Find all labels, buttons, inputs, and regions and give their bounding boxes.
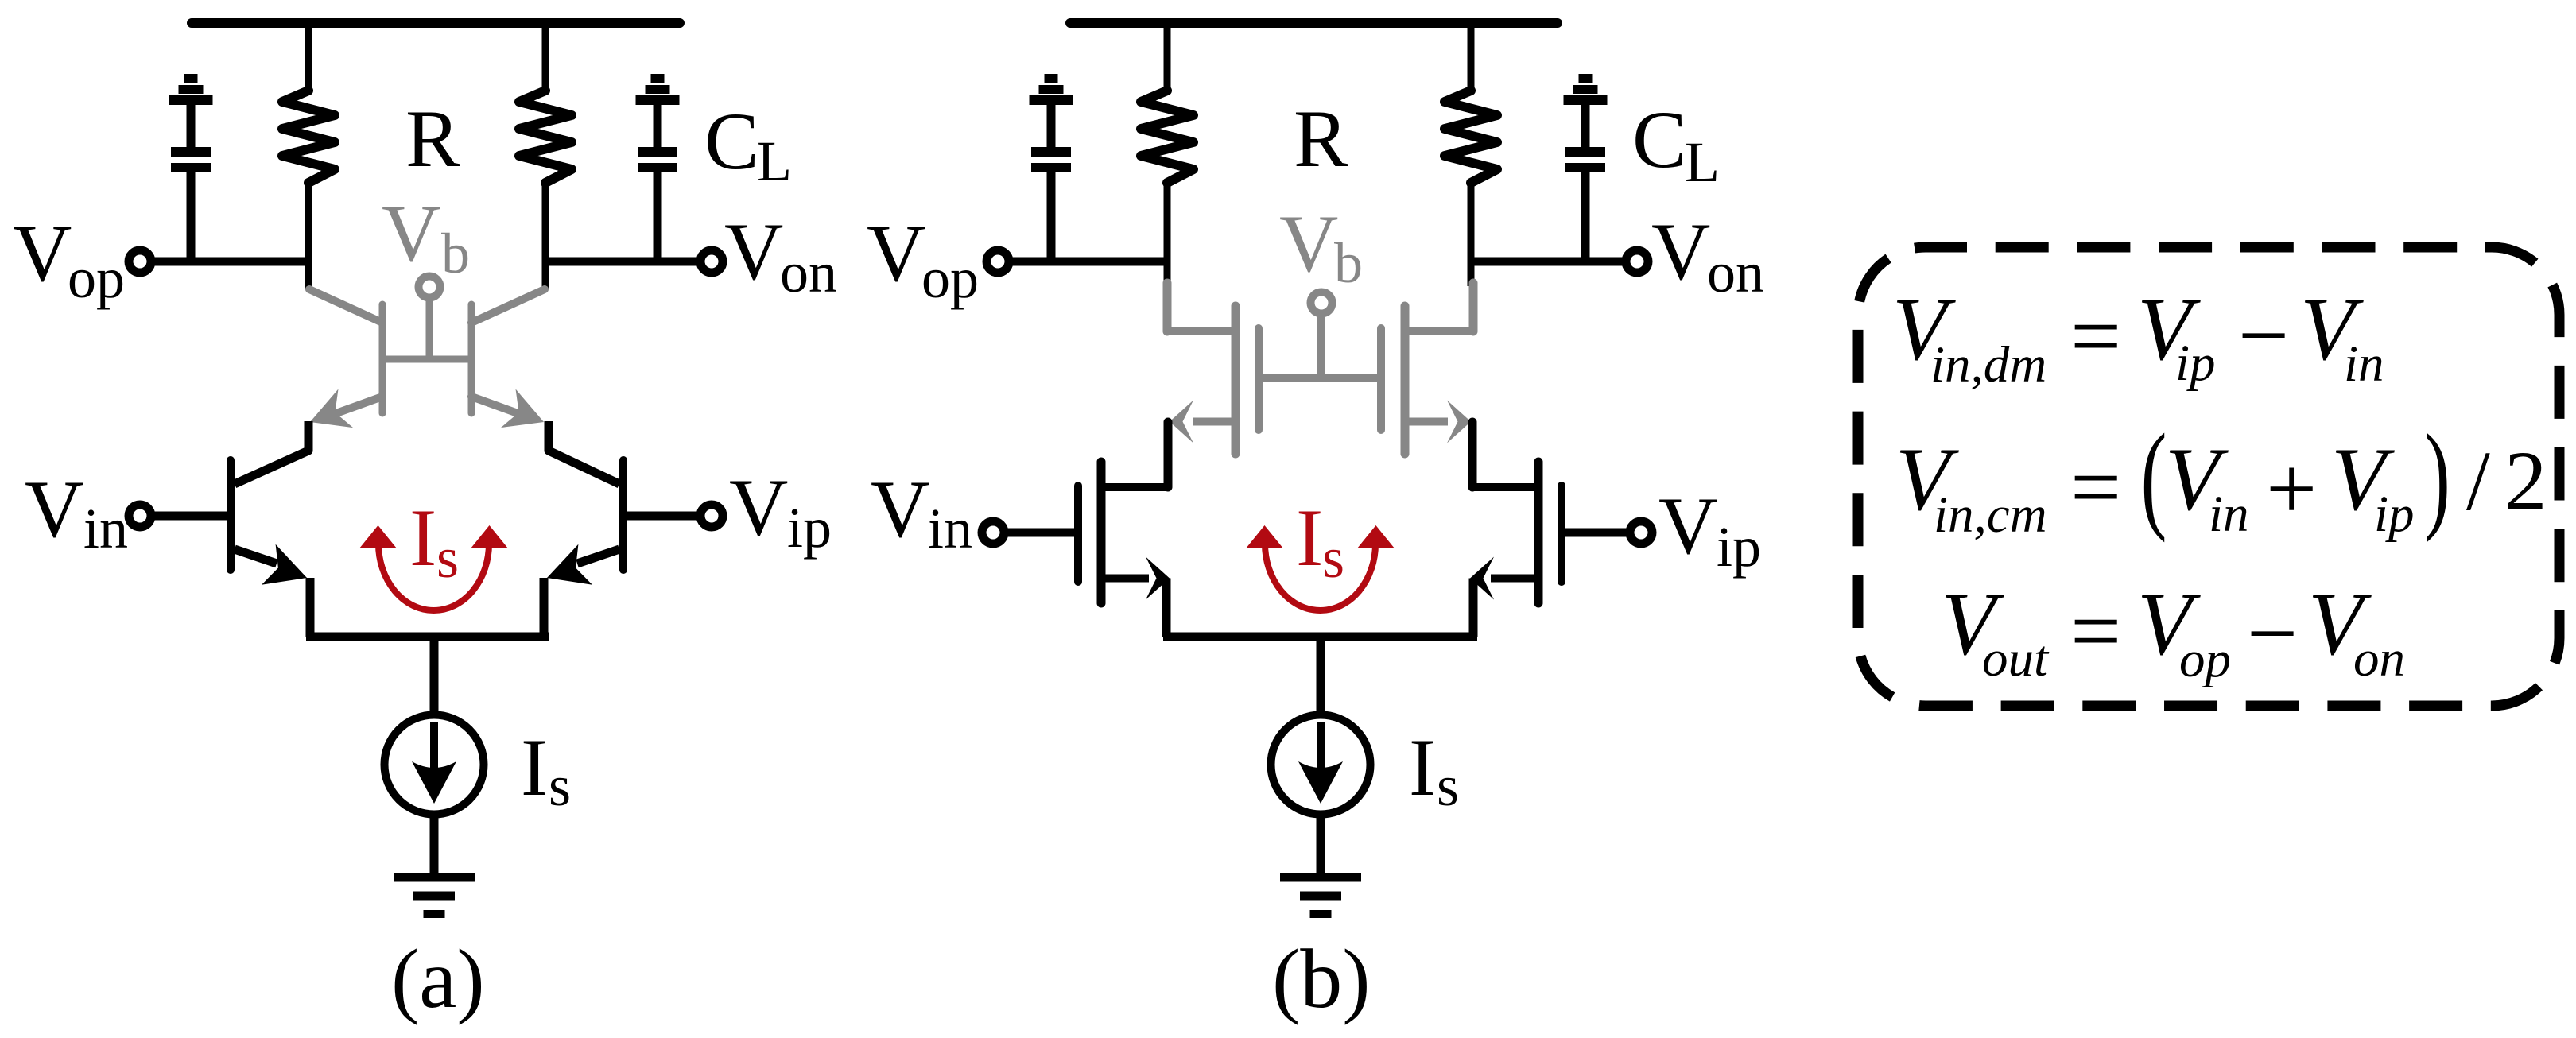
svg-text:(b): (b) [1272, 932, 1371, 1025]
svg-text:−: − [2238, 285, 2289, 385]
wire: right resistor to Von node (b) [1468, 181, 1475, 286]
input BJT Q1 left (a): emitter wire [235, 549, 277, 564]
gray cascode MOS M3 left (b): drain stub [1163, 283, 1172, 331]
svg-text:V: V [871, 464, 929, 555]
terminal node Vin (a) [129, 505, 151, 527]
svg-text:ip: ip [787, 496, 832, 560]
wire: current source to ground (b) [1317, 815, 1325, 877]
svg-text:I: I [409, 493, 436, 583]
svg-text:+: + [2266, 438, 2317, 539]
svg-text:L: L [757, 130, 792, 193]
wire: M2 drain to gray source (b) [1468, 422, 1477, 487]
input MOS M2 right (b): drain wire [1473, 483, 1538, 491]
input BJT Q1 left (a): base bar [227, 460, 235, 570]
svg-text:=: = [2070, 580, 2121, 681]
red current arrow Is (b) [1246, 525, 1395, 610]
terminal node Vop (b) [987, 250, 1009, 273]
svg-text:V: V [382, 188, 440, 279]
current source Is (a) [385, 715, 484, 815]
gray cascode MOS M3 left (b): source wire [1193, 418, 1236, 426]
gray cascode BJT Q3 left (a): collector wire [309, 289, 382, 323]
svg-text:=: = [2070, 285, 2121, 386]
wire: Von node line (a) [542, 258, 698, 266]
svg-text:ip: ip [2374, 486, 2415, 543]
svg-text:out: out [1982, 630, 2050, 687]
svg-text:(: ( [2141, 409, 2167, 543]
wire: tail to current source (a) [430, 637, 439, 715]
terminal node Vip (b) [1630, 521, 1652, 544]
svg-text:on: on [2353, 630, 2405, 687]
input MOS M2 right (b): source wire [1491, 575, 1538, 583]
gray cascode MOS M3 left (b): channel bar [1232, 306, 1240, 454]
resistor R right (a) [519, 91, 572, 183]
svg-text:s: s [1437, 754, 1459, 818]
wire: Q2 emitter to tail rail (a) [540, 578, 549, 637]
resistor R right (b) [1445, 91, 1497, 183]
gray cascode BJT Q3 left (a): base bar [379, 304, 386, 413]
current source Is (b) [1271, 715, 1371, 815]
wire: Q1 emitter to tail rail (a) [306, 578, 315, 637]
svg-text:V: V [867, 208, 925, 299]
equation 1: Vin,dm = Vip - Vin [1892, 280, 2384, 393]
svg-text:2: 2 [2504, 435, 2547, 529]
wire: tail to current source (b) [1317, 637, 1325, 715]
wire: tail rail (b) [1163, 633, 1477, 641]
input BJT Q1 left (a): collector wire [235, 421, 308, 484]
input MOS M1 left (b): source wire [1101, 575, 1149, 583]
gray wire: Vb stem (a) [426, 300, 433, 359]
svg-text:s: s [436, 526, 459, 590]
svg-text:): ) [2424, 409, 2450, 543]
input BJT Q1 left (a): emitter arrow [262, 544, 307, 585]
capacitor CL right (a) [636, 74, 680, 265]
input MOS M2 right (b): source arrow [1470, 557, 1494, 600]
gray cascode BJT Q4 right (a): collector wire [471, 289, 545, 323]
wire: M1 source to tail rail (b) [1162, 579, 1171, 637]
wire: Vin base lead (a) [154, 512, 227, 521]
resistor R left (a) [282, 91, 335, 183]
input BJT Q2 right (a): emitter arrow [547, 544, 592, 585]
input MOS M1 left (b): drain wire [1101, 483, 1167, 491]
wire: Vip base lead (a) [627, 512, 700, 521]
svg-text:op: op [68, 246, 125, 310]
svg-text:V: V [13, 208, 72, 299]
gray cascode MOS M3 left (b): gate bar [1255, 328, 1263, 430]
input BJT Q2 right (a): collector wire [549, 421, 619, 484]
input MOS M1 left (b): source arrow [1146, 557, 1170, 600]
gray cascode MOS M4 right (b): drain stub [1469, 283, 1478, 331]
wire: Von node line (b) [1468, 258, 1624, 266]
gray cascode BJT Q4 right (a): base bar [468, 304, 475, 413]
svg-text:in,dm: in,dm [1930, 336, 2046, 393]
equation 3: Vout = Vop - Von [1941, 575, 2405, 688]
svg-text:=: = [2070, 436, 2121, 537]
gray cascode MOS M4 right (b): channel bar [1401, 306, 1410, 454]
ground (a) [394, 877, 475, 914]
terminal node Vb (b) [1311, 292, 1333, 314]
input MOS M1 left (b): gate bar [1074, 486, 1082, 582]
input MOS M1 left (b): channel bar [1097, 462, 1106, 603]
svg-text:s: s [1322, 526, 1344, 590]
svg-text:V: V [729, 463, 788, 553]
svg-text:ip: ip [2175, 335, 2216, 392]
svg-text:on: on [780, 241, 837, 304]
svg-text:−: − [2247, 583, 2298, 684]
terminal node Von (a) [700, 250, 723, 273]
svg-text:b: b [441, 222, 470, 285]
wire: tail rail (a) [306, 633, 549, 641]
wire: left resistor to Vop node (a) [305, 181, 312, 289]
wire: rail to left resistor (a) [305, 23, 312, 94]
capacitor CL left (a) [169, 74, 213, 265]
wire: rail to right resistor (a) [542, 23, 549, 94]
svg-text:V: V [1658, 481, 1717, 571]
svg-text:V: V [25, 464, 83, 555]
gray cascode MOS M4 right (b): gate bar [1377, 328, 1385, 430]
svg-text:ip: ip [1717, 515, 1761, 579]
equation 2: Vin,cm = (Vin + Vip)/2 [1895, 409, 2547, 544]
input MOS M2 right (b): gate bar [1558, 486, 1565, 582]
input BJT Q2 right (a): base bar [619, 460, 627, 570]
svg-text:V: V [1651, 207, 1710, 297]
resistor R left (b) [1141, 91, 1193, 183]
wire: current source to ground (a) [430, 815, 439, 877]
svg-text:C: C [704, 96, 759, 187]
gray wire: base crossbar (a) [382, 356, 471, 363]
svg-text:on: on [1707, 241, 1764, 304]
wire: Vin gate lead (b) [1007, 529, 1075, 537]
svg-text:s: s [549, 754, 571, 818]
wire: rail to left resistor (b) [1164, 23, 1171, 94]
wire: M1 drain to gray source (b) [1164, 422, 1173, 487]
terminal node Vb (a) [419, 277, 440, 298]
terminal node Vip (a) [700, 505, 723, 527]
svg-text:V: V [1279, 199, 1338, 289]
wire: right resistor to Von node (a) [542, 181, 549, 289]
svg-text:L: L [1685, 130, 1720, 194]
svg-text:op: op [921, 246, 979, 310]
wire: Vop node line (b) [1011, 258, 1170, 266]
input BJT Q2 right (a): emitter wire [577, 549, 619, 564]
svg-text:in: in [2209, 486, 2249, 543]
dashed equation box [1858, 247, 2559, 706]
gray wire: Vb stem (b) [1317, 316, 1325, 378]
svg-text:/: / [2466, 435, 2490, 529]
svg-text:R: R [1294, 94, 1348, 184]
gray cascode BJT Q3 left (a): emitter wire [334, 397, 382, 414]
supply rail (a) [192, 18, 680, 28]
gray cascode MOS M4 right (b): source arrow [1447, 401, 1471, 443]
capacitor CL left (b) [1030, 74, 1073, 265]
terminal node Vop (a) [129, 250, 151, 273]
gray cascode BJT Q4 right (a): emitter wire [471, 397, 520, 414]
wire: rail to right resistor (b) [1468, 23, 1475, 94]
gray cascode MOS M4 right (b): drain wire [1405, 327, 1473, 335]
supply rail (b) [1070, 18, 1558, 28]
gray cascode MOS M4 right (b): source wire [1405, 418, 1448, 426]
svg-text:I: I [1296, 493, 1323, 583]
svg-text:in: in [2344, 335, 2384, 393]
wire: left resistor to Vop node (b) [1164, 181, 1171, 286]
svg-text:V: V [724, 207, 783, 297]
ground (b) [1280, 877, 1361, 914]
svg-text:I: I [521, 722, 548, 813]
wire: M2 source to tail rail (b) [1469, 579, 1478, 637]
svg-text:in,cm: in,cm [1934, 486, 2047, 544]
svg-text:in: in [928, 497, 972, 560]
svg-text:b: b [1334, 231, 1363, 295]
red current arrow Is (a) [359, 525, 508, 610]
svg-text:op: op [2179, 631, 2231, 688]
svg-text:I: I [1409, 722, 1436, 813]
wire: Vip gate lead (b) [1565, 529, 1627, 537]
svg-text:in: in [83, 497, 128, 560]
terminal node Vin (b) [982, 521, 1004, 544]
gray wire: gate crossbar (b) [1259, 374, 1381, 382]
svg-text:C: C [1632, 95, 1687, 185]
gray cascode BJT Q3 left (a): emitter arrow [310, 389, 353, 428]
svg-text:(a): (a) [391, 932, 485, 1025]
wire: Vop node line (a) [153, 258, 312, 266]
capacitor CL right (b) [1564, 74, 1608, 265]
gray cascode MOS M3 left (b): source arrow [1170, 401, 1193, 443]
svg-text:R: R [405, 94, 460, 184]
gray cascode MOS M3 left (b): drain wire [1167, 327, 1236, 335]
terminal node Von (b) [1626, 250, 1648, 273]
input MOS M2 right (b): channel bar [1534, 462, 1543, 603]
gray cascode BJT Q4 right (a): emitter arrow [501, 389, 544, 428]
